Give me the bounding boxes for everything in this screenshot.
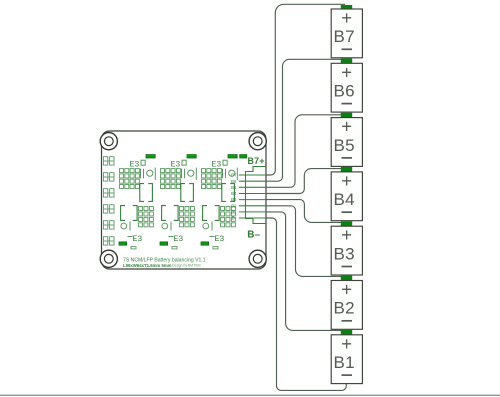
- wire B6 tap to B7/B6 junction: [266, 59, 341, 181]
- pad P3b bright rectangle top extra: [240, 155, 247, 158]
- svg-text:E3: E3: [212, 160, 222, 169]
- capacitor pair C4 left column: [103, 205, 114, 213]
- board title text: [123, 257, 206, 263]
- svg-text:B2: B2: [231, 203, 237, 208]
- label B-: [247, 230, 260, 241]
- pin 3 line B5: [231, 185, 266, 190]
- battery B7 terminal cap: [341, 5, 352, 9]
- svg-text:+: +: [341, 224, 352, 245]
- capacitor circle CB5: [162, 222, 171, 231]
- battery B7: [331, 7, 362, 58]
- battery B1: [331, 333, 362, 384]
- resistor array RA2 square grid: [161, 169, 181, 189]
- svg-text:E3: E3: [130, 160, 140, 169]
- PCB board outline: [102, 131, 267, 269]
- bracket pair electrolytic E2: [181, 184, 194, 202]
- bottom frame line: [0, 394, 500, 396]
- capacitor pair C1 left column: [103, 157, 114, 165]
- svg-text:E3: E3: [133, 235, 143, 244]
- mounting hole top-left: [100, 133, 117, 150]
- svg-text:+: +: [341, 170, 352, 191]
- svg-text:E3: E3: [171, 160, 181, 169]
- svg-text:+: +: [341, 116, 352, 137]
- wire B7+ to B7 positive cap: [266, 4, 345, 175]
- svg-text:B7+: B7+: [248, 156, 265, 166]
- svg-text:B4: B4: [231, 191, 237, 196]
- pin 2 line B6: [231, 179, 266, 184]
- E3 glyph block 4: [128, 235, 143, 244]
- mounting hole bottom-right: [249, 250, 266, 267]
- pin 1 line B7: [231, 173, 266, 178]
- svg-text:B2: B2: [334, 299, 355, 318]
- battery B6 terminal cap: [341, 58, 352, 63]
- svg-text:B7: B7: [231, 173, 237, 178]
- svg-text:L99xW64xT1.6mm 5mm: L99xW64xT1.6mm 5mm: [123, 263, 172, 268]
- resistor array RA1 square grid: [120, 169, 140, 189]
- bracket pair electrolytic E5 bottom row: [162, 206, 178, 221]
- svg-text:+: +: [341, 279, 352, 300]
- resistor array RA3 square grid: [202, 169, 222, 189]
- pad P2 bright rectangle top: [187, 155, 196, 158]
- capacitor pair C2 left column: [103, 173, 114, 181]
- IC footprint block U1 top row: [130, 160, 146, 169]
- bracket pair electrolytic E1: [140, 184, 153, 202]
- battery B4: [331, 170, 362, 221]
- connector J1 outline: [246, 167, 267, 224]
- resistor array RB5 square grid bottom: [180, 207, 195, 227]
- IC footprint block U2 top row: [171, 160, 187, 169]
- wire B2 tap to B3/B2 junction: [266, 206, 341, 277]
- capacitor circle CT3: [229, 170, 235, 176]
- battery B2: [331, 279, 362, 330]
- pad PB5 bright rectangle bottom: [160, 242, 168, 245]
- battery B4 terminal cap: [341, 167, 352, 172]
- E3 glyph block 5: [169, 235, 184, 244]
- battery B5: [331, 116, 362, 167]
- bracket pair electrolytic E4 bottom row: [121, 206, 137, 221]
- svg-text:Design by BMT/EB: Design by BMT/EB: [172, 264, 201, 268]
- connector marks block 2: [182, 168, 197, 181]
- label B7+: [248, 156, 265, 166]
- pin 6 line B2: [231, 203, 266, 208]
- svg-text:B1: B1: [231, 210, 237, 215]
- pin 7 line B1: [231, 210, 266, 215]
- pad P1 bright rectangle top: [146, 155, 155, 158]
- svg-text:+: +: [341, 7, 352, 28]
- pin 4 line B4: [231, 191, 266, 196]
- E3 glyph block 6: [210, 235, 225, 244]
- pin 5 line B3: [231, 197, 266, 202]
- svg-text:B1: B1: [334, 353, 355, 372]
- battery B2 terminal cap: [341, 276, 352, 281]
- battery B6: [331, 61, 362, 112]
- svg-text:E3: E3: [215, 235, 225, 244]
- svg-text:B3: B3: [334, 244, 355, 263]
- capacitor circle CT2: [188, 170, 194, 176]
- svg-text:B5: B5: [231, 185, 237, 190]
- svg-text:+: +: [341, 333, 352, 354]
- bracket pair electrolytic E6 bottom row: [203, 206, 219, 221]
- capacitor circle CB6: [203, 222, 212, 231]
- wire B4 tap to B5/B4 junction: [266, 169, 341, 194]
- capacitor pair C5 left column: [103, 221, 114, 229]
- pad P3 bright rectangle top: [228, 155, 237, 158]
- svg-text:B–: B–: [247, 230, 260, 241]
- wire B1 tap to B2/B1 junction: [266, 212, 341, 331]
- svg-text:+: +: [341, 61, 352, 82]
- capacitor circle CB4: [121, 222, 130, 231]
- connector marks block 1: [141, 168, 156, 181]
- capacitor pair C3 left column: [103, 189, 114, 197]
- pad PB4 bright rectangle bottom: [119, 242, 127, 245]
- solder mark block 5: [172, 247, 177, 249]
- svg-text:B6: B6: [334, 82, 355, 101]
- battery B1 terminal cap: [341, 330, 352, 335]
- wire B- to B1 negative terminal: [266, 218, 346, 390]
- resistor array RB6 square grid bottom: [221, 207, 236, 227]
- svg-text:B6: B6: [231, 179, 237, 184]
- svg-text:B-: B-: [232, 216, 237, 221]
- battery B3 terminal cap: [341, 221, 352, 226]
- svg-text:B4: B4: [334, 190, 355, 209]
- capacitor pair C6 left column: [103, 237, 114, 245]
- board subtitle text: [123, 263, 201, 268]
- capacitor circle CT1: [147, 170, 153, 176]
- solder mark block 6: [213, 247, 218, 249]
- mounting hole top-right: [249, 133, 266, 150]
- solder mark block 4: [131, 247, 136, 249]
- pad PB6 bright rectangle bottom: [201, 242, 209, 245]
- battery B3: [331, 224, 362, 275]
- IC footprint block U3 top row: [212, 160, 228, 169]
- mounting hole bottom-left: [100, 250, 117, 267]
- bracket pair electrolytic E3: [222, 184, 235, 202]
- connector marks block 3: [223, 168, 238, 181]
- svg-text:B5: B5: [334, 136, 355, 155]
- resistor array RB4 square grid bottom: [139, 207, 154, 227]
- battery B5 terminal cap: [341, 113, 352, 118]
- svg-text:B7: B7: [334, 27, 355, 46]
- wire B3 tap to B4/B3 junction: [266, 200, 341, 223]
- pin 8 line B-: [232, 216, 267, 221]
- svg-text:E3: E3: [174, 235, 184, 244]
- svg-text:B3: B3: [231, 197, 237, 202]
- wire B5 tap to B6/B5 junction: [266, 115, 341, 188]
